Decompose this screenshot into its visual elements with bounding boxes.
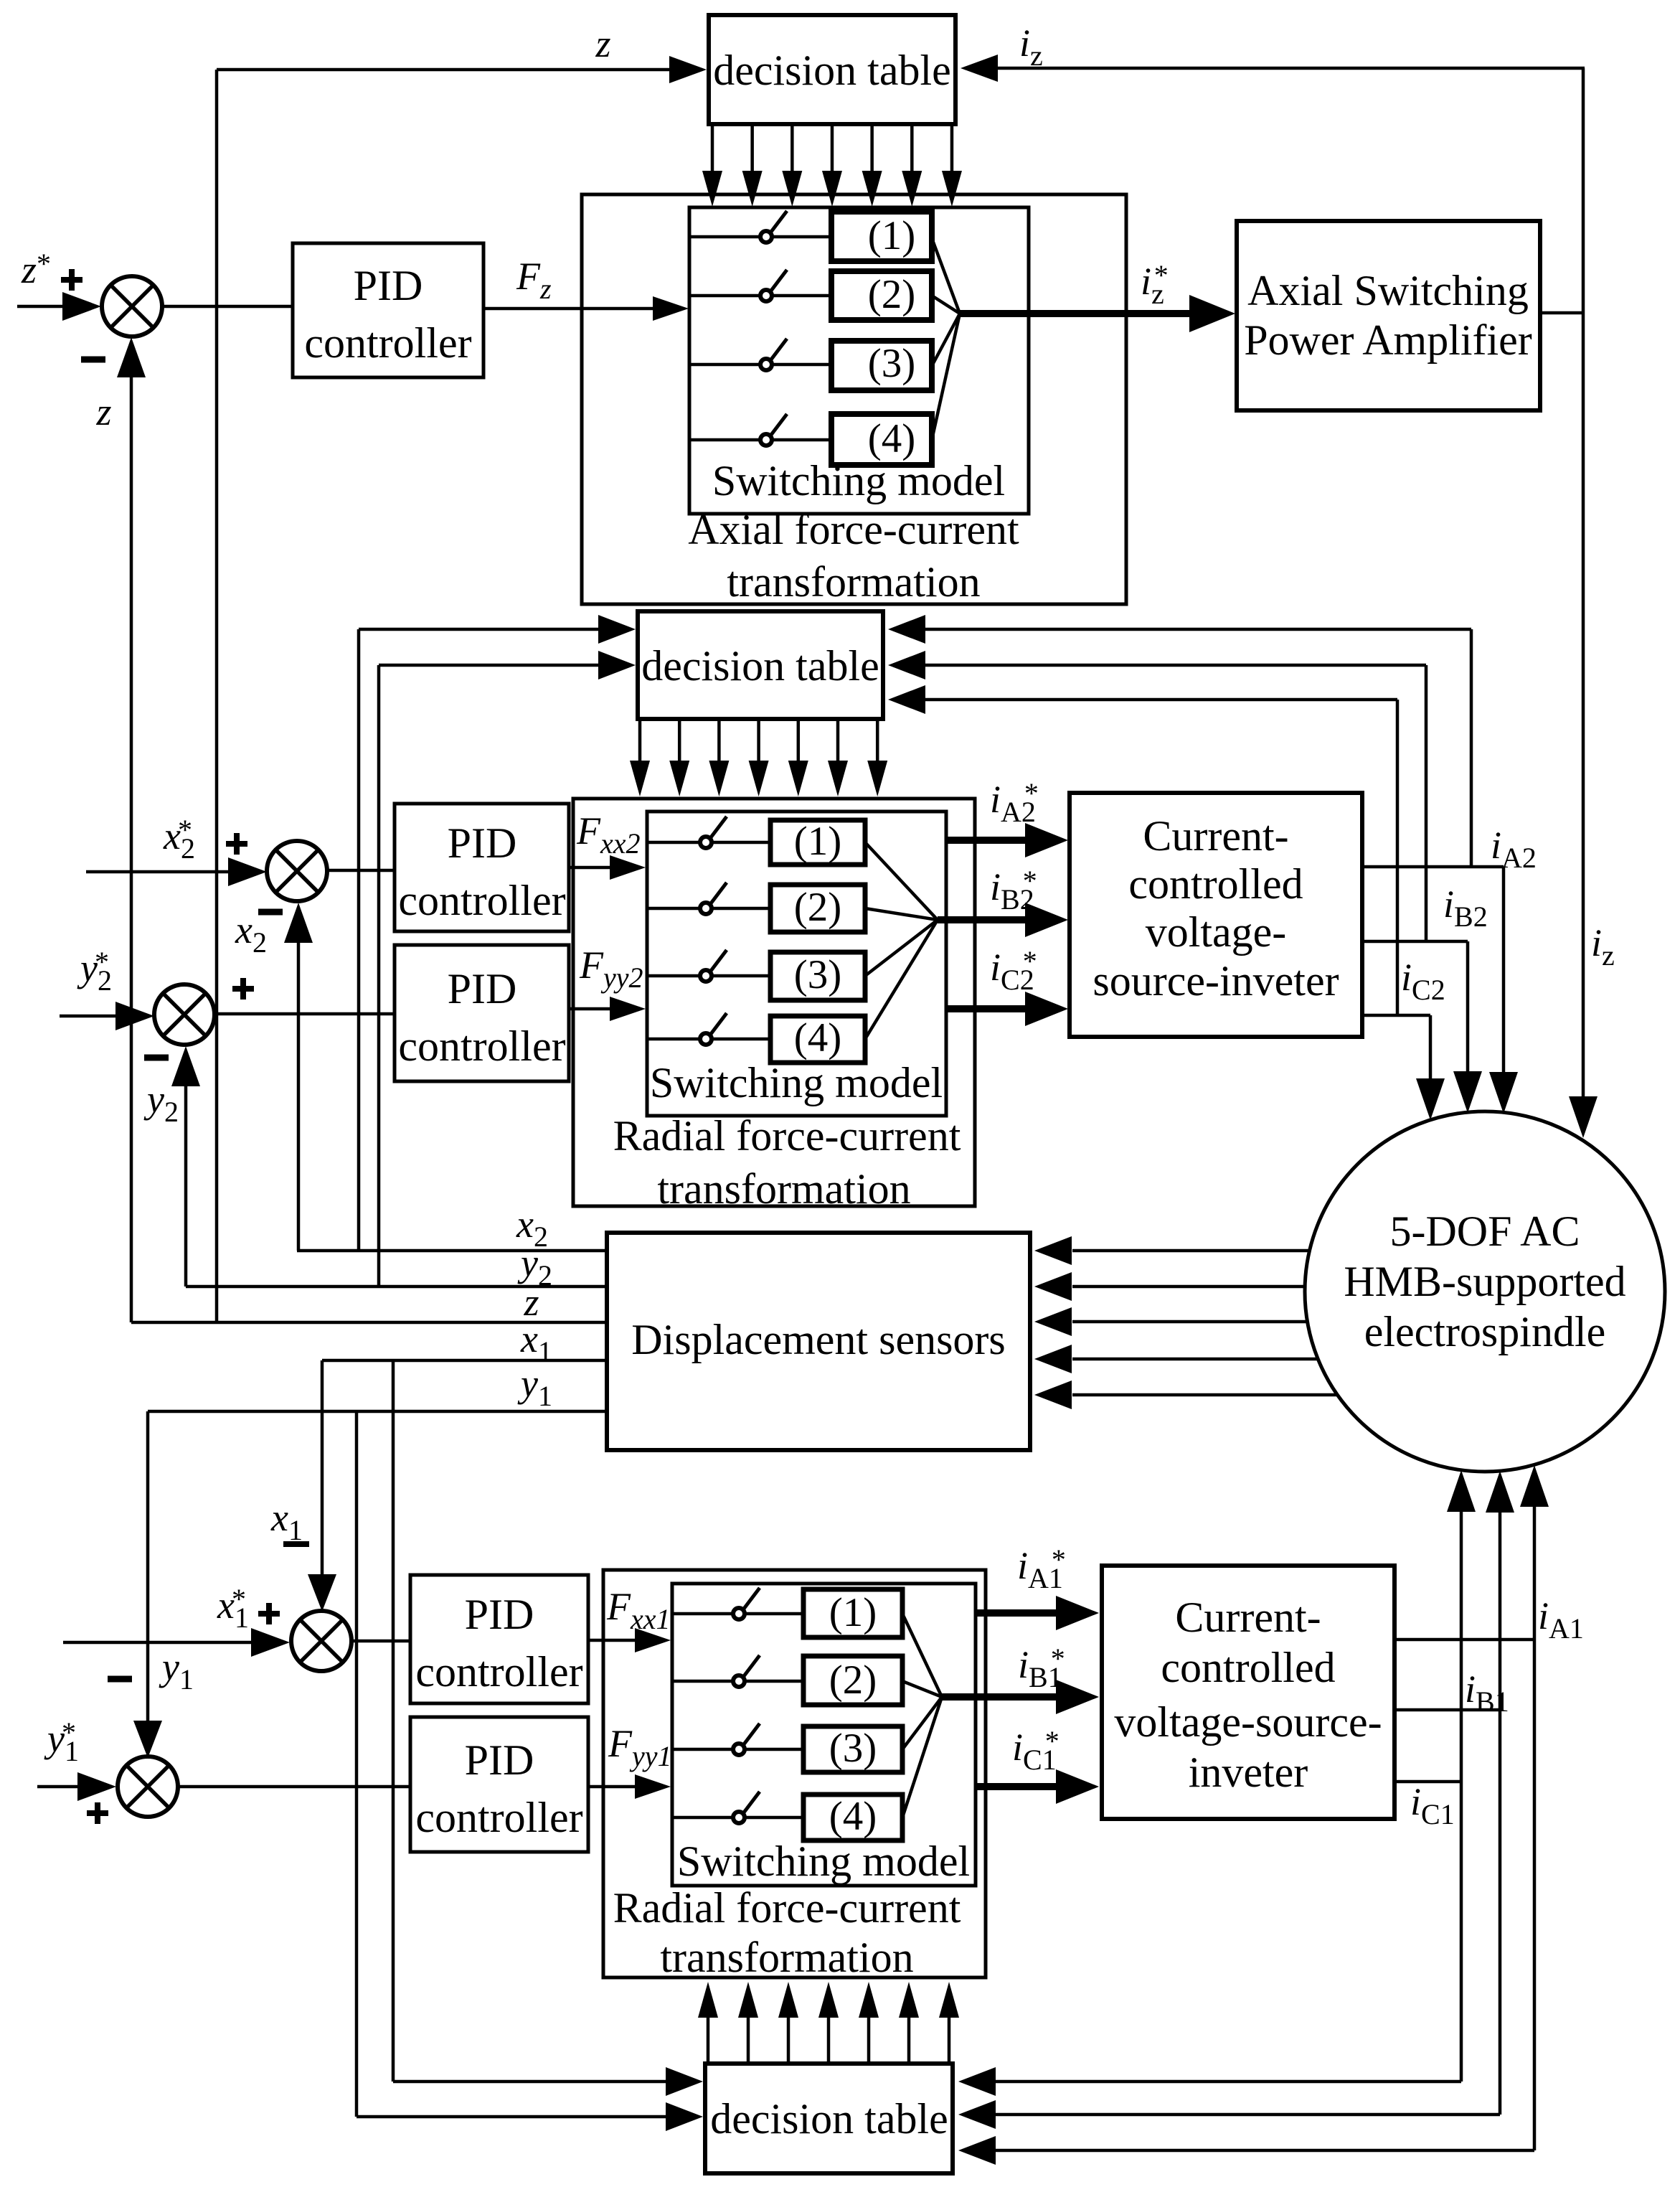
summing junction y1 — [118, 1756, 178, 1817]
node plus sign (x2 summing) — [226, 841, 247, 847]
node plus sign (z summing) — [61, 277, 82, 283]
decision table 3 (radial 1) box — [705, 2064, 953, 2173]
wire z into decision table 1 — [217, 68, 674, 72]
wire electrospindle to displacement sensors 5 — [1072, 1393, 1337, 1397]
svg-text:transformation: transformation — [727, 558, 980, 606]
wire y1 output of displacement sensors — [148, 1410, 607, 1414]
svg-text:PID: PID — [465, 1736, 534, 1784]
PID controller (y2) box — [395, 945, 569, 1081]
svg-text:Radial force-current: Radial force-current — [613, 1884, 961, 1932]
5-DOF AC HMB-supported electrospindle circle — [1305, 1111, 1665, 1472]
wire y1 feedback down to decision table 3 (left input 2) — [355, 1411, 359, 2117]
svg-text:Displacement sensors: Displacement sensors — [631, 1316, 1006, 1363]
wire F_yy2 from PID to radial switching model — [569, 1007, 613, 1011]
svg-text:5-DOF AC: 5-DOF AC — [1389, 1208, 1580, 1255]
wire electrospindle to displacement sensors 3 — [1072, 1320, 1308, 1324]
svg-text:controlled: controlled — [1161, 1644, 1335, 1691]
radial switching model inner box (lower) — [672, 1584, 976, 1886]
node minus sign (z summing) — [81, 357, 105, 363]
wire i_B2* to voltage source inverter 2 — [938, 916, 1026, 923]
wire summing junction x1 to PID controller — [351, 1640, 410, 1643]
decision table 2 output arrows (7) into radial switching model — [638, 719, 642, 762]
svg-text:Current-: Current- — [1143, 812, 1288, 860]
PID controller (x2) box — [395, 804, 569, 931]
wire i_A1 from inverter 1 up to electrospindle and down to decision table 3 — [1395, 1638, 1534, 1642]
svg-text:controller: controller — [398, 1022, 565, 1070]
radial-2 function box (4) — [770, 1016, 865, 1063]
radial-1 switch row 1 — [672, 1612, 803, 1616]
radial-2 switch row 1 — [647, 841, 770, 845]
svg-text:decision table: decision table — [713, 47, 951, 94]
wire electrospindle to displacement sensors 1 — [1072, 1249, 1310, 1253]
svg-text:decision table: decision table — [641, 642, 879, 690]
node plus sign (x1 summing) — [258, 1611, 280, 1617]
svg-text:(2): (2) — [868, 272, 915, 317]
svg-text:PID: PID — [354, 262, 423, 309]
radial force-current transformation outer box (lower) — [603, 1570, 986, 1977]
svg-text:electrospindle: electrospindle — [1364, 1308, 1606, 1355]
wire i_B1* to voltage source inverter 1 — [942, 1693, 1058, 1701]
svg-text:(1): (1) — [868, 213, 915, 258]
axial function box (2) — [831, 271, 932, 320]
wire y2 feedback up into decision table 2 (left input 2) — [377, 665, 381, 1287]
svg-text:PID: PID — [448, 819, 517, 867]
summing junction x1 — [291, 1611, 351, 1671]
wire y2 feedback up into summing junction y2 — [184, 1078, 188, 1287]
svg-text:PID: PID — [448, 965, 517, 1012]
decision table 1 (axial) box — [709, 15, 955, 124]
wire x2 feedback up into decision table 2 (left input 1) — [357, 629, 361, 1251]
axial function box (1) — [831, 212, 932, 261]
svg-text:Axial Switching: Axial Switching — [1247, 267, 1529, 314]
svg-text:x2*: x2* — [163, 814, 195, 865]
svg-text:decision table: decision table — [710, 2095, 948, 2143]
axial function box (4) — [831, 414, 932, 465]
axial force-current transformation outer box — [582, 194, 1126, 604]
svg-text:x1*: x1* — [217, 1583, 249, 1634]
wire y2 output of displacement sensors — [186, 1285, 607, 1289]
svg-text:y1*: y1* — [44, 1716, 79, 1767]
PID controller (y1) box — [410, 1717, 588, 1852]
PID controller (x1) box — [410, 1575, 588, 1703]
wire x2* input to summing junction — [86, 870, 237, 874]
node minus sign (y2 summing) — [144, 1055, 169, 1061]
wire x1* input to summing junction — [63, 1641, 260, 1645]
svg-text:controller: controller — [398, 877, 565, 924]
svg-text:(3): (3) — [794, 952, 841, 997]
svg-text:Current-: Current- — [1175, 1594, 1321, 1641]
svg-text:(3): (3) — [868, 341, 915, 386]
wire summing junction x2 to PID controller — [327, 869, 395, 873]
decision table 1 output arrows (7) into axial switching model — [711, 124, 714, 172]
wire i_A2 from inverter 2 down to electrospindle — [1362, 865, 1504, 869]
wire i_C1* to voltage source inverter 1 — [976, 1783, 1058, 1790]
svg-text:Power Amplifier: Power Amplifier — [1244, 316, 1532, 364]
radial-1 switch row 2 — [672, 1680, 803, 1683]
wire x2 output of displacement sensors — [297, 1249, 607, 1253]
axial converge lines to output node — [932, 238, 960, 314]
radial-2 function box (3) — [770, 952, 865, 1000]
wire electrospindle to displacement sensors 2 — [1072, 1285, 1305, 1289]
wire y1* input to summing junction — [37, 1785, 88, 1789]
current-controlled voltage-source-inverter box (lower) — [1102, 1566, 1395, 1819]
radial-2 switch row 3 — [647, 974, 770, 978]
wire F_xx2 from PID to radial switching model — [569, 866, 613, 870]
radial-1 switch row 4 — [672, 1816, 803, 1820]
axial switch row 4 — [689, 438, 831, 442]
radial-2 function box (2) — [770, 885, 865, 932]
radial switching model inner box (upper) — [647, 812, 946, 1116]
axial switch row 3 — [689, 363, 831, 367]
radial-1 function box (3) — [803, 1726, 902, 1772]
node plus sign (y1 summing) — [87, 1810, 108, 1816]
radial-2 converge lines to output node — [865, 842, 938, 920]
radial-1 switch row 3 — [672, 1748, 803, 1751]
svg-text:transformation: transformation — [657, 1165, 910, 1213]
wire F_z from PID to axial switching model — [483, 307, 654, 311]
wire F_yy1 from PID to radial switching model — [588, 1785, 640, 1789]
axial switching model inner box — [689, 207, 1029, 514]
wire y2* input to summing junction — [60, 1015, 123, 1018]
svg-text:source-inveter: source-inveter — [1093, 957, 1339, 1005]
PID controller (axial) box — [293, 243, 483, 377]
svg-text:Radial force-current: Radial force-current — [613, 1112, 961, 1160]
wire z feedback up into summing junction z — [130, 370, 133, 1322]
current-controlled voltage-source-inverter box (upper) — [1070, 793, 1362, 1037]
wire electrospindle to displacement sensors 4 — [1072, 1358, 1318, 1361]
svg-text:controlled: controlled — [1128, 860, 1303, 908]
svg-text:controller: controller — [415, 1794, 582, 1841]
axial switch row 1 — [689, 235, 831, 239]
wire i_C1 from inverter 1 up to electrospindle and down to decision table 3 — [1395, 1780, 1461, 1784]
wire F_xx1 from PID to radial switching model — [588, 1639, 640, 1642]
radial-2 function box (1) — [770, 820, 865, 865]
node plus sign (y2 summing) — [232, 986, 254, 992]
svg-text:controller: controller — [304, 319, 471, 367]
svg-text:y2*: y2* — [77, 946, 112, 997]
wire amplifier output to i_z vertical — [1540, 311, 1585, 315]
svg-text:Switching model: Switching model — [677, 1838, 970, 1885]
node minus sign (x2 summing) — [258, 909, 283, 916]
wire i_z* thick output to amplifier — [960, 310, 1191, 317]
wire i_A2 feedback into decision table 2 (right input 1) — [925, 628, 1471, 631]
wire i_C2 from inverter 2 down to electrospindle — [1362, 1014, 1430, 1017]
wire z* input to summing junction — [17, 305, 68, 309]
axial switch row 2 — [689, 294, 831, 298]
radial-2 switch row 4 — [647, 1038, 770, 1041]
wire i_A2* to voltage source inverter 2 — [946, 837, 1026, 844]
svg-text:transformation: transformation — [660, 1934, 913, 1981]
wire summing junction y1 to PID controller — [178, 1785, 410, 1789]
radial-1 function box (4) — [803, 1795, 902, 1840]
wire i_z feedback from amplifier output to decision table 1 — [965, 67, 1585, 70]
wire i_z right vertical down to electrospindle — [1582, 68, 1585, 1096]
wire i_C2 feedback into decision table 2 (right input 3) — [925, 698, 1397, 702]
displacement sensors box — [607, 1233, 1030, 1450]
svg-text:(3): (3) — [829, 1726, 877, 1771]
decision table 2 (radial 2) box — [638, 611, 883, 719]
svg-text:(4): (4) — [868, 416, 915, 461]
axial function box (3) — [831, 341, 932, 390]
svg-text:(1): (1) — [829, 1590, 877, 1635]
summing junction z — [102, 276, 162, 337]
svg-text:voltage-: voltage- — [1146, 908, 1287, 956]
svg-text:(4): (4) — [794, 1015, 841, 1060]
svg-text:(2): (2) — [829, 1657, 877, 1703]
wire i_A1* to voltage source inverter 1 — [976, 1609, 1058, 1617]
svg-text:inveter: inveter — [1189, 1749, 1308, 1796]
axial switching power amplifier box — [1237, 221, 1540, 410]
summing junction y2 — [154, 984, 214, 1045]
svg-text:z: z — [95, 390, 111, 433]
wire summing junction z to PID controller — [162, 305, 293, 309]
wire x1 feedback down to decision table 3 (left input 1) — [392, 1360, 395, 2082]
wire z output of displacement sensors — [131, 1321, 607, 1325]
node minus sign (y1 summing) — [108, 1676, 132, 1683]
wire i_B2 from inverter 2 down to electrospindle — [1362, 940, 1468, 944]
svg-text:Switching model: Switching model — [650, 1059, 943, 1106]
wire z feedback vertical from displacement sensors up to decision table 1 — [215, 70, 219, 1322]
radial-1 function box (1) — [803, 1589, 902, 1637]
wire i_B2 feedback into decision table 2 (right input 2) — [925, 664, 1426, 667]
wire y1 down vertical to summing junction y1 — [146, 1411, 150, 1723]
svg-text:PID: PID — [465, 1591, 534, 1638]
svg-text:(4): (4) — [829, 1794, 877, 1839]
radial-1 function box (2) — [803, 1656, 902, 1705]
svg-text:voltage-source-: voltage-source- — [1114, 1698, 1382, 1746]
radial-1 converge lines to output node — [902, 1614, 942, 1697]
svg-text:HMB-supported: HMB-supported — [1344, 1258, 1625, 1305]
svg-text:(1): (1) — [794, 819, 841, 864]
wire i_B1 from inverter 1 up to electrospindle and down to decision table 3 — [1395, 1708, 1500, 1712]
wire i_C2* to voltage source inverter 2 — [946, 1005, 1026, 1012]
wire x1 down vertical to summing junction x1 — [321, 1360, 324, 1577]
decision table 3 output arrows (7) into radial switching model (lower) — [707, 2018, 710, 2064]
summing junction x2 — [267, 841, 327, 901]
svg-text:controller: controller — [415, 1648, 582, 1695]
wire x1 output of displacement sensors — [322, 1359, 607, 1363]
svg-text:(2): (2) — [794, 885, 841, 930]
wire summing junction y2 to PID controller — [214, 1012, 395, 1016]
radial force-current transformation outer box (upper) — [573, 799, 975, 1206]
svg-text:z: z — [595, 22, 610, 65]
radial-2 switch row 2 — [647, 907, 770, 911]
wire x2 feedback up into summing junction x2 — [297, 935, 301, 1251]
